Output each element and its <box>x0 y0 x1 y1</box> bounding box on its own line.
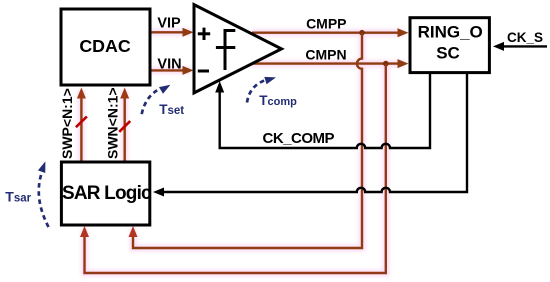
wire VIN <box>150 66 194 75</box>
svg-text:SC: SC <box>436 44 460 63</box>
label Tset <box>159 102 184 117</box>
comparator minus input <box>198 70 209 73</box>
comparator clock symbol <box>216 31 235 71</box>
junction dot CMPP feedback node <box>359 30 365 36</box>
svg-text:set: set <box>168 105 185 117</box>
wire VIP <box>150 28 194 37</box>
wire SWN bus (SAR Logic to CDAC) <box>120 88 129 163</box>
bus slash SWP <box>76 117 87 128</box>
wire CMPN feedback (vertical to SAR Logic bottom) <box>80 64 386 273</box>
wire CMPP feedback (vertical with hop over CMPN, to SAR Logic bottom) <box>129 33 363 248</box>
svg-text:CK_S: CK_S <box>507 30 543 45</box>
Tsar dashed arrow <box>38 160 49 227</box>
SAR Logic block <box>61 162 149 225</box>
Tset dashed arrow <box>142 81 173 114</box>
svg-text:VIP: VIP <box>157 15 181 31</box>
svg-text:SWN<N:1>: SWN<N:1> <box>105 87 121 159</box>
svg-text:RING_O: RING_O <box>418 22 483 41</box>
wire RING_OSC leg2 to SAR Logic <box>153 73 467 197</box>
wire CK_S input <box>493 42 547 51</box>
wire SWP bus (SAR Logic to CDAC) <box>77 88 86 163</box>
junction dot CMPN feedback node <box>383 61 389 67</box>
comparator clock arrowhead <box>215 81 224 93</box>
svg-text:sar: sar <box>14 193 32 205</box>
wire CK_COMP (RING_OSC leg1 to comparator clock) <box>220 73 430 148</box>
wire halo artifacts <box>81 32 404 273</box>
svg-text:CK_COMP: CK_COMP <box>263 130 335 147</box>
comparator plus input <box>198 28 210 40</box>
svg-text:CDAC: CDAC <box>79 36 131 56</box>
svg-text:CMPN: CMPN <box>305 46 346 62</box>
svg-text:comp: comp <box>268 96 298 108</box>
svg-text:SAR Logic: SAR Logic <box>62 183 152 204</box>
label Tcomp <box>259 93 297 108</box>
svg-text:SWP<N:1>: SWP<N:1> <box>59 88 75 159</box>
svg-text:CMPP: CMPP <box>306 16 346 32</box>
wire CMPP (comparator output P to RING_OSC) <box>252 28 409 37</box>
svg-text:VIN: VIN <box>157 56 181 72</box>
bus slash SWN <box>119 121 130 132</box>
wire CMPN (comparator output N to RING_OSC) <box>251 59 409 68</box>
label Tsar <box>5 189 31 205</box>
op-amp comparator U1 <box>194 5 282 93</box>
RING_OSC block <box>410 18 489 73</box>
CDAC block <box>61 9 150 85</box>
Tcomp dashed arrow <box>247 74 277 103</box>
